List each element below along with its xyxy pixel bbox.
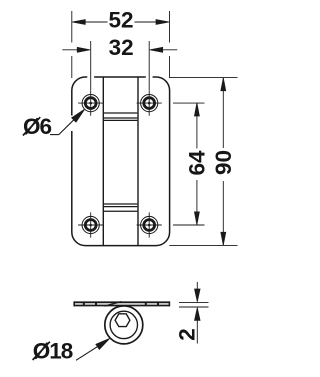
dimension 2 line with arrows: [195, 282, 201, 344]
knuckle joint upper pair line 2: [104, 119, 137, 121]
dimension 2 top extension line: [179, 301, 209, 303]
svg-text:2: 2: [174, 328, 199, 341]
knuckle right edge: [137, 77, 139, 245]
screw hole top-right: [137, 91, 162, 116]
dimension 64 line with arrows: [194, 103, 199, 225]
barrel inner circle: [110, 311, 137, 338]
screw hole top-left: [78, 91, 103, 116]
screw hole bottom-right: [137, 212, 162, 237]
knuckle joint lower pair line 1: [104, 203, 137, 205]
svg-text:64: 64: [185, 150, 210, 176]
dimension 32 left extension line: [90, 41, 92, 90]
dimension 52 left extension line: [71, 11, 73, 78]
side view leaf top edge: [74, 301, 170, 303]
knuckle joint lower pair line 2: [104, 206, 137, 208]
leader line diameter 6: [50, 109, 85, 135]
dimension 32 right extension line: [148, 41, 150, 90]
knuckle joint upper pair line 1: [104, 117, 137, 119]
side view screw hole tick marks: [84, 303, 158, 305]
dimension 90 bottom extension line: [169, 244, 237, 246]
knuckle joint upper single line: [104, 112, 137, 114]
dimension 90 top extension line: [169, 77, 237, 79]
leader line diameter 18: [76, 338, 110, 360]
side view leaf joint diagonal: [105, 302, 122, 306]
dimension 64 top extension line: [173, 102, 205, 104]
dimension 64 bottom extension line: [173, 224, 205, 226]
knuckle left edge: [102, 77, 104, 245]
dimension 32 right arrow: [150, 47, 178, 52]
knuckle joint lower single line: [104, 210, 137, 212]
dimension 2 bottom extension line: [179, 306, 209, 308]
svg-text:52: 52: [108, 7, 133, 32]
side view leaf right end cap: [168, 301, 170, 306]
side view leaf left end cap: [73, 301, 75, 306]
screw hole bottom-left: [78, 212, 103, 237]
svg-text:Ø6: Ø6: [23, 114, 52, 139]
barrel outer circle: [105, 306, 143, 344]
dimension 52 right extension line: [169, 11, 171, 78]
dimension 52 line with arrows: [72, 20, 169, 25]
svg-text:32: 32: [109, 35, 134, 60]
svg-text:90: 90: [211, 150, 236, 175]
hinge plate outline: [72, 77, 170, 246]
outline gap at right 32 extension crossing: [146, 76, 153, 79]
svg-text:Ø18: Ø18: [33, 338, 73, 363]
side view leaf bottom edge: [74, 305, 170, 307]
dimension 32 left arrow: [62, 47, 90, 52]
dimension 90 line with arrows: [221, 78, 226, 245]
outline gap at diameter-6 leader crossing: [70, 116, 73, 132]
hex socket: [115, 314, 130, 327]
outline gap at left 32 extension crossing: [87, 76, 94, 79]
